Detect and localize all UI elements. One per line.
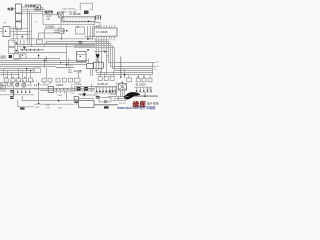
lamp dot <box>17 84 18 85</box>
transformer T5 cross <box>118 84 126 90</box>
stub <box>12 82 14 84</box>
dark blob <box>104 106 109 108</box>
junction <box>124 96 126 98</box>
svg-text:遥控: 遥控 <box>0 54 6 59</box>
svg-text:C2003: C2003 <box>56 84 64 87</box>
junction <box>22 55 23 56</box>
diode bridge D1 <box>59 13 64 18</box>
lamp circle <box>22 83 26 87</box>
capacitor C21 <box>79 42 83 44</box>
wire <box>97 96 99 99</box>
wire <box>87 26 89 40</box>
pin pad <box>13 92 14 93</box>
diode D5 <box>59 29 64 34</box>
junction <box>66 30 67 31</box>
bus wire <box>0 62 87 64</box>
transformer T5 <box>118 84 126 90</box>
wire <box>94 51 109 53</box>
wire <box>74 88 94 90</box>
arrowed wire <box>20 49 44 51</box>
wire <box>124 90 126 93</box>
wire <box>65 91 67 101</box>
wire <box>27 9 29 44</box>
svg-text:电源: 电源 <box>7 6 13 11</box>
arrow marks <box>22 49 39 51</box>
wire <box>74 90 94 92</box>
wire <box>94 104 118 106</box>
svg-text:+5V: +5V <box>46 18 51 21</box>
pin pad <box>29 92 30 93</box>
dark module <box>84 87 88 91</box>
wire <box>134 91 152 93</box>
regulator box Q3 <box>77 51 86 61</box>
wire <box>0 94 34 96</box>
capacitor C40 <box>10 97 14 99</box>
wire <box>45 56 47 62</box>
wire <box>40 90 54 92</box>
svg-text:C2003: C2003 <box>146 89 151 91</box>
wire <box>17 89 19 93</box>
box U8 <box>34 68 40 73</box>
pin pads <box>96 91 117 93</box>
wire <box>41 8 43 15</box>
box U10 <box>99 98 111 102</box>
bus wire <box>0 72 34 74</box>
junction <box>143 76 144 77</box>
terminal box <box>1 86 6 89</box>
switch box S1 <box>9 40 16 46</box>
wire <box>22 6 36 8</box>
wire <box>92 26 94 40</box>
wire <box>54 90 74 92</box>
component C7 dark body <box>84 11 89 15</box>
wire <box>29 11 31 44</box>
wire <box>13 86 15 97</box>
regulator divider <box>77 54 86 56</box>
wire <box>104 73 106 77</box>
junction <box>63 30 64 31</box>
svg-text:磁控管: 磁控管 <box>44 9 54 14</box>
capacitor C50 <box>96 97 100 98</box>
fuse box F1 <box>8 82 13 86</box>
component row box <box>62 78 66 82</box>
junction <box>104 51 106 53</box>
pin pad <box>17 92 18 93</box>
power supply box U101 lower <box>16 14 22 22</box>
long wire <box>0 88 95 90</box>
junction <box>12 77 13 78</box>
IC U4 body <box>94 28 117 36</box>
component row box <box>74 78 80 82</box>
wire <box>0 28 3 30</box>
wire <box>124 69 126 78</box>
svg-text:IC C2948: IC C2948 <box>96 30 108 34</box>
junction <box>96 70 97 71</box>
wire <box>94 86 117 88</box>
IC U4 top pins <box>96 26 114 28</box>
ink swoosh <box>124 92 140 99</box>
wire <box>106 39 108 75</box>
component row box <box>48 78 52 82</box>
wire <box>115 85 117 96</box>
component row box <box>4 78 8 82</box>
wire <box>113 100 126 102</box>
junction <box>124 74 126 76</box>
pin numbers row <box>95 39 116 41</box>
component row box <box>42 78 46 82</box>
wire <box>97 58 99 62</box>
wire <box>21 89 23 93</box>
svg-text:177-02: 177-02 <box>119 103 126 105</box>
wire <box>74 86 94 88</box>
pin pads <box>136 90 152 91</box>
wire <box>22 12 43 14</box>
wire <box>26 69 28 79</box>
lamp circle <box>16 83 19 86</box>
connector J2 box <box>94 23 100 27</box>
stub <box>149 75 151 79</box>
component row box <box>127 78 132 82</box>
svg-text:121: 121 <box>115 83 118 85</box>
junction pair <box>34 85 35 86</box>
svg-text:T444 B+: T444 B+ <box>74 84 83 86</box>
junction <box>122 82 123 83</box>
junction <box>77 26 78 27</box>
wire <box>74 87 76 92</box>
wire <box>109 75 111 77</box>
wire <box>18 100 34 107</box>
wire <box>22 71 24 79</box>
wire <box>124 93 126 98</box>
wire <box>10 28 28 30</box>
junction <box>88 21 90 23</box>
wire <box>13 8 16 10</box>
pins <box>137 87 151 91</box>
pin pad <box>25 92 26 93</box>
wire <box>95 15 101 17</box>
wire <box>45 29 58 39</box>
dark component <box>20 107 25 109</box>
wire <box>3 69 5 79</box>
wire <box>22 10 45 12</box>
wire <box>34 88 54 90</box>
regulator dot <box>80 56 81 57</box>
wire <box>91 84 93 92</box>
wire <box>29 89 31 93</box>
resistor R11 <box>95 16 97 20</box>
bus joiner <box>152 63 154 75</box>
component row box <box>56 78 60 82</box>
pin with pad <box>97 87 116 91</box>
wire <box>78 72 80 78</box>
relay K1 box <box>35 5 41 10</box>
wire <box>100 71 102 77</box>
junction <box>61 38 62 39</box>
speck row <box>20 80 37 82</box>
bus wire <box>14 58 60 60</box>
stub <box>24 82 26 84</box>
deflection box <box>79 100 94 107</box>
bus wire <box>96 72 152 74</box>
svg-text:4B C2003: 4B C2003 <box>135 84 146 86</box>
box U9 <box>48 87 53 93</box>
component row box <box>148 78 152 82</box>
bus wire <box>0 70 34 72</box>
wire <box>44 59 46 69</box>
dark component <box>9 55 12 58</box>
wire <box>13 27 15 39</box>
bus wire <box>15 44 95 46</box>
wire <box>121 82 123 96</box>
wire <box>43 14 58 16</box>
bus wire <box>0 74 20 76</box>
svg-text:Z1: Z1 <box>89 9 91 11</box>
stub <box>64 91 66 93</box>
motor box M1 <box>93 62 103 68</box>
wire loop <box>80 3 92 10</box>
junction <box>6 77 7 78</box>
svg-text:电子市场: 电子市场 <box>147 100 159 105</box>
wire <box>90 68 92 76</box>
contact tick <box>16 43 17 44</box>
bus wire <box>18 46 95 48</box>
bus corner wire <box>74 48 153 71</box>
stub <box>49 82 51 84</box>
bus wire <box>0 64 87 66</box>
bus corner wire <box>74 46 153 69</box>
wire <box>92 68 94 76</box>
component row box <box>17 78 21 82</box>
stub <box>137 75 139 79</box>
svg-text:J7: J7 <box>14 81 16 83</box>
junction <box>46 58 47 59</box>
arrowed wire <box>56 66 74 68</box>
bus wire <box>96 74 152 76</box>
junction <box>24 77 25 78</box>
wire <box>34 103 74 105</box>
svg-text:B+调整: B+调整 <box>74 69 82 73</box>
wire <box>95 39 97 69</box>
capacitor C30 <box>10 91 14 92</box>
wire <box>60 18 62 25</box>
wire <box>83 91 85 94</box>
wire <box>22 96 74 101</box>
component row box <box>110 77 114 81</box>
relay dot <box>36 7 38 9</box>
IC U2 inner ticks <box>64 17 95 19</box>
wire <box>88 59 90 64</box>
wire <box>11 92 13 95</box>
component cluster <box>74 97 78 100</box>
svg-text:K201: K201 <box>27 85 33 87</box>
junction <box>18 77 19 78</box>
pin pad <box>21 92 22 93</box>
wire <box>10 38 95 40</box>
wire <box>23 40 25 47</box>
bus corner wire <box>46 42 155 63</box>
junction pair <box>36 85 37 86</box>
ground arrow <box>82 93 86 96</box>
sensor box U3 <box>3 27 10 37</box>
svg-text:C9: C9 <box>74 10 76 12</box>
wire <box>120 90 122 97</box>
diode bridge D1 cross <box>59 13 64 18</box>
component row box <box>23 78 27 82</box>
junction <box>87 38 89 40</box>
stub <box>128 75 130 78</box>
wire <box>14 52 67 54</box>
wire <box>17 39 19 54</box>
capacitor bars <box>74 101 78 102</box>
svg-text:IC DM-03: IC DM-03 <box>97 83 108 86</box>
IC U2 body <box>62 17 95 22</box>
junction <box>13 94 14 95</box>
wire <box>14 34 30 36</box>
diode D5 cross <box>59 29 64 34</box>
pin number specks <box>96 24 115 26</box>
wire <box>16 27 18 39</box>
background <box>0 0 160 110</box>
junction <box>44 60 45 61</box>
coil box L2 <box>36 40 42 44</box>
bus corner wire <box>44 44 155 67</box>
wire <box>46 68 48 78</box>
contact stub <box>15 50 18 52</box>
junction <box>58 100 60 102</box>
wire <box>10 31 32 33</box>
stub <box>29 82 31 84</box>
dark module <box>77 87 81 91</box>
stub <box>5 82 7 84</box>
wire <box>78 98 94 100</box>
lamp dot <box>23 85 24 86</box>
dark wire <box>134 95 158 97</box>
junction <box>120 77 121 78</box>
wire <box>98 39 100 71</box>
junction <box>30 70 31 71</box>
component row box <box>104 77 108 81</box>
wire <box>68 59 70 67</box>
stub <box>18 82 20 84</box>
wire <box>31 13 33 46</box>
svg-text:C301: C301 <box>57 95 63 97</box>
junction <box>38 103 40 105</box>
wire <box>80 94 98 96</box>
wire <box>114 98 126 100</box>
wire <box>54 31 59 33</box>
wire <box>0 31 3 33</box>
dotted joints <box>56 88 70 90</box>
junction <box>26 68 27 69</box>
bus wire <box>0 68 34 70</box>
component row box <box>136 78 140 82</box>
wire <box>54 30 59 32</box>
wire <box>94 92 117 94</box>
wire <box>43 24 95 26</box>
wire <box>22 8 45 10</box>
terminal box <box>1 82 6 85</box>
wire <box>38 82 40 104</box>
wire <box>66 45 68 67</box>
transformer T2 box <box>75 27 84 34</box>
wire <box>11 73 13 79</box>
junction <box>22 36 24 38</box>
capacitor stem <box>79 43 81 45</box>
wire <box>84 36 94 38</box>
component row box <box>98 77 102 81</box>
IC U2 pins <box>64 21 91 23</box>
junction <box>144 95 146 97</box>
stub <box>60 91 62 93</box>
box U7 <box>20 54 26 59</box>
svg-text:www.dzsc.com 电子市场网: www.dzsc.com 电子市场网 <box>117 105 155 110</box>
svg-text:R162 C164 C9: R162 C164 C9 <box>62 12 77 14</box>
power supply box U101 third <box>16 22 22 29</box>
speaker box LS1 <box>87 64 94 69</box>
wire <box>0 90 6 92</box>
small box U11 <box>111 90 116 94</box>
terminal tick <box>57 12 59 15</box>
junction <box>60 62 61 63</box>
wire <box>134 86 152 88</box>
wire <box>113 71 115 77</box>
wire <box>75 103 77 105</box>
wire <box>100 39 102 73</box>
wire <box>57 15 59 17</box>
switch box S2 <box>9 48 16 54</box>
sensor dot <box>5 31 6 32</box>
junction <box>66 64 67 65</box>
wire <box>20 40 22 45</box>
stub <box>143 75 145 79</box>
box U6 <box>14 54 20 59</box>
wire <box>89 26 91 40</box>
arrow junction <box>23 47 26 50</box>
contact tick <box>16 50 17 51</box>
wire <box>108 96 129 98</box>
wire <box>144 92 146 96</box>
wire <box>39 33 58 39</box>
junction <box>10 84 11 85</box>
wire <box>38 54 40 59</box>
bus wire <box>0 60 89 62</box>
stub <box>56 91 58 93</box>
wire <box>103 39 105 52</box>
component row box <box>11 78 15 82</box>
wire <box>42 15 44 25</box>
arrow A1 <box>96 54 100 58</box>
component row box <box>142 78 146 82</box>
junction <box>87 49 89 51</box>
wire <box>18 69 20 79</box>
bus wire <box>0 66 56 68</box>
junction <box>38 55 39 56</box>
wire <box>30 71 32 79</box>
contact stub <box>15 42 18 44</box>
lamp oval <box>104 101 107 103</box>
wire <box>7 71 9 79</box>
component row box <box>28 78 32 82</box>
component row box <box>69 78 73 82</box>
resistor R12 <box>97 16 99 20</box>
wire <box>120 56 122 77</box>
stub <box>43 82 45 84</box>
resistor R13 <box>100 16 102 20</box>
wire <box>60 33 62 38</box>
wire <box>118 97 120 101</box>
power supply box U101 upper <box>16 4 22 13</box>
wire <box>25 89 27 93</box>
